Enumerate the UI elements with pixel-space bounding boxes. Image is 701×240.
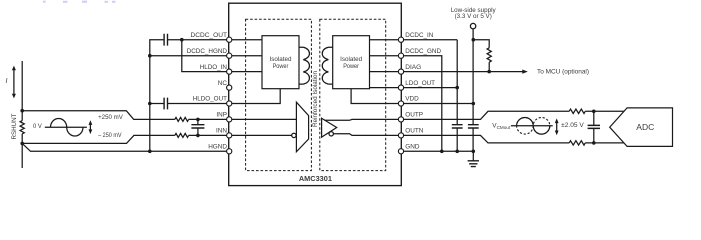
node: output bubble [329,132,333,136]
node: rail-HGND junction [148,150,152,154]
svg-text:+250 mV: +250 mV [98,114,123,121]
svg-text:– 250 mV: – 250 mV [98,132,122,139]
pin NC [227,85,232,90]
svg-text:(3.3 V or 5 V): (3.3 V or 5 V) [455,13,492,20]
high-side dashed boundary [246,19,312,170]
node: shunt bottom junction [20,142,24,146]
wire: DCDC_HGND row [150,55,227,57]
node: GND / supply-cap rail junction [472,150,476,154]
svg-text:0 V: 0 V [33,123,43,130]
wire: INP to pin [189,118,227,120]
wire: GND row [404,150,474,152]
svg-text:DCDC_OUT: DCDC_OUT [191,32,228,39]
wire: OUTP row to band top [404,111,570,119]
pin HLDO_OUT [227,101,232,106]
wire: HLDO_OUT row inside with step [231,89,281,104]
capacitor C6 (supply rail bypass) [468,125,479,128]
svg-text:INN: INN [216,128,227,135]
svg-text:±2.05 V: ±2.05 V [561,122,584,129]
node: rail-HLDO_OUT junction [148,102,152,106]
svg-text:ADC: ADC [636,123,654,132]
svg-text:NC: NC [218,80,228,87]
wire: band top to ADC [585,110,624,112]
capacitor C7 (ADC input) [588,110,600,145]
pin INN [227,133,232,138]
wire: DCDC_GND row inside [370,55,400,57]
wire: LDO_OUT row [404,87,458,89]
low-side dashed boundary [320,19,386,170]
svg-text:I: I [6,78,8,85]
capacitor C1 (DCDC_OUT bypass) [164,34,227,46]
pin VDD [398,101,403,106]
wire: DIAG row inside [370,71,400,73]
svg-text:DCDC_HGND: DCDC_HGND [187,48,228,55]
low-side supply terminal [470,23,475,28]
pin GND [398,149,403,154]
node: rail-DCDC_HGND junction [148,54,152,58]
node: supply / DCDC_IN branch junction [472,38,476,42]
wire: supply rail vertical [472,29,474,152]
svg-text:Reinforced Isolation: Reinforced Isolation [312,70,319,127]
op-amp U3 (output amplifier, low side) [322,118,337,137]
svg-text:Power: Power [273,63,289,70]
pin DCDC_OUT [227,37,232,42]
svg-text:VDD: VDD [405,96,419,103]
svg-text:DCDC_IN: DCDC_IN [405,32,433,39]
source: 0 V sine [33,119,87,136]
resistor RSHUNT [20,121,24,134]
wire: DCDC_HGND row inside [231,55,263,57]
wire: shunt vertical [21,61,23,168]
svg-text:HLDO_IN: HLDO_IN [200,64,228,71]
pin DCDC_HGND [227,53,232,58]
node: rail B / LDO_OUT junction [455,86,459,90]
node: DCDC_OUT / HLDO_IN junction [180,38,184,42]
pin HGND [227,149,232,154]
svg-text:OUTN: OUTN [405,128,423,135]
isolated power block (high side) [262,36,299,89]
svg-text:DIAG: DIAG [405,64,421,71]
cropped caption fragments (top edge) [43,1,116,3]
node: INN inverting bubble [292,133,296,137]
pin labels right [405,32,441,151]
wire: VDD row [404,103,474,105]
node: rail A / GND junction [440,150,444,154]
pin OUTN [398,133,403,138]
resistor R1 (INP series) [175,117,189,121]
wire: band bottom edge to INN [22,135,175,143]
pin labels left [187,32,228,151]
ground [468,151,479,166]
wire: rail B vertical [456,40,458,152]
ADC block [610,108,673,146]
svg-text:DCDC_GND: DCDC_GND [405,48,441,55]
wire: DCDC_IN row inside [370,39,400,41]
op-amp U2 (sigma-delta modulator, high side) [296,102,308,152]
wire: DCDC_IN to rail B [404,39,458,41]
node: VDD / supply rail junction [472,102,476,106]
resistor R4 (OUTP filter) [569,109,585,113]
wire: LDO_OUT row inside [370,87,400,89]
svg-text:To MCU (optional): To MCU (optional) [537,68,589,75]
wire: OUTN inside with jog [333,134,399,136]
node: shunt top junction [20,109,24,113]
resistor R3 (DIAG pull-up) [473,40,491,74]
pin INP [227,117,232,122]
wire: VDD step to power block [351,89,399,104]
source VCMout common-mode [492,118,552,135]
transformer secondary coil [322,47,332,84]
wire: INP row inside [231,118,297,120]
wire: band top edge to INP [22,111,175,120]
capacitor C2 (HLDO_OUT bypass) [150,98,227,110]
node: rail B / GND junction [455,150,459,154]
svg-text:HLDO_OUT: HLDO_OUT [193,96,227,103]
wire: HLDO_IN branch [182,40,227,72]
wire: DCDC_GND to rail A [404,56,442,152]
wire: INN to pin [189,134,227,136]
resistor R5 (OUTN filter) [569,141,585,145]
svg-text:VCMout: VCMout [492,122,511,129]
wire: DCDC_OUT row inside [231,39,263,41]
pin HLDO_IN [227,69,232,74]
svg-text:AMC3301: AMC3301 [299,174,333,183]
capacitor C3 (INP-INN differential) [191,118,204,138]
svg-text:OUTP: OUTP [405,112,423,119]
wire: HGND line [22,143,227,151]
svg-text:LDO_OUT: LDO_OUT [405,80,435,87]
pin LDO_OUT [398,85,403,90]
label: +/-2.05 V arrow [555,118,585,135]
transformer primary coil [299,47,309,84]
svg-text:RSHUNT: RSHUNT [12,113,18,139]
pin OUTP [398,117,403,122]
wire: band bottom to ADC [585,142,624,144]
isolated power block (low side) [333,36,370,89]
resistor R2 (INN series) [175,133,189,137]
wire: left HGND rail [150,40,164,152]
svg-text:INP: INP [216,112,227,119]
wire: DIAG row to MCU arrow [404,68,589,75]
pin DCDC_GND [398,53,403,58]
svg-text:Power: Power [343,63,359,70]
wire: HLDO_IN row inside [231,71,263,73]
pin DCDC_IN [398,37,403,42]
svg-text:GND: GND [405,144,420,151]
pin DIAG [398,69,403,74]
op-amp U1 block AMC3301 outer box [229,3,402,185]
wire: INN row inside [231,134,292,136]
wire: OUTP inside with jog [325,118,400,121]
capacitor C5 (rail B bypass) [452,125,463,128]
wire: OUTN row to band bottom [404,135,570,143]
svg-text:HGND: HGND [208,144,227,151]
current arrow I [6,66,16,99]
label: +/-250 mV range arrow [89,114,124,139]
